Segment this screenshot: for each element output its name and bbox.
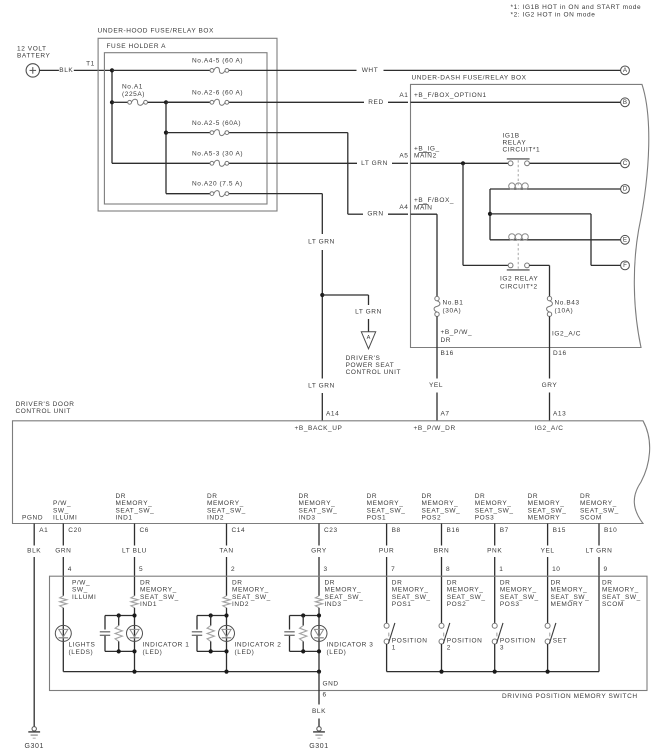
- junction Indicator 3 top rail at wire: [317, 613, 321, 617]
- svg-text:POSITION: POSITION: [500, 637, 536, 644]
- wire pin C20 (GRN): [62, 524, 64, 596]
- junction gnd bus IND1: [132, 670, 136, 674]
- svg-text:DR: DR: [528, 493, 539, 500]
- svg-text:GRY: GRY: [542, 382, 558, 389]
- label PNK wire colour: [487, 548, 502, 555]
- pin C6 label: [140, 527, 149, 534]
- driving position memory switch box: [50, 576, 648, 690]
- svg-text:8: 8: [446, 566, 450, 573]
- svg-text:LT GRN: LT GRN: [308, 383, 335, 390]
- label POSITION 1: [392, 637, 428, 651]
- svg-text:MEMORY_: MEMORY_: [475, 500, 512, 507]
- junction Indicator 2 bottom rail at resistor: [209, 649, 213, 653]
- svg-text:DR: DR: [367, 493, 378, 500]
- svg-text:POS1: POS1: [392, 601, 412, 608]
- svg-text:MEMORY_: MEMORY_: [367, 500, 404, 507]
- svg-text:CONTROL UNIT: CONTROL UNIT: [16, 408, 71, 415]
- svg-text:PNK: PNK: [487, 548, 502, 555]
- label LT GRN wire colour: [586, 548, 613, 555]
- capacitor Indicator 3: [284, 616, 294, 652]
- svg-text:MEMORY_: MEMORY_: [140, 587, 177, 594]
- svg-text:C14: C14: [232, 527, 246, 534]
- label BRN wire colour: [434, 548, 449, 555]
- svg-text:DR: DR: [232, 580, 243, 587]
- pin C14 label: [232, 527, 246, 534]
- resistor R1 illumination: [60, 596, 67, 608]
- svg-text:CIRCUIT*1: CIRCUIT*1: [503, 147, 541, 154]
- pin A13 label: [553, 411, 566, 418]
- svg-text:(225A): (225A): [122, 91, 145, 98]
- label +B_F/BOX_OPTION1: [414, 92, 487, 99]
- label IG2_A/C pin A13: [535, 425, 564, 432]
- svg-text:+B_F/BOX_: +B_F/BOX_: [414, 197, 454, 204]
- wire POS2 to common bus: [441, 644, 443, 672]
- label DRIVER'S DOOR CONTROL UNIT: [16, 401, 75, 415]
- svg-text:DR: DR: [441, 337, 452, 344]
- pin 7 memory switch label: [391, 566, 395, 573]
- svg-text:POWER SEAT: POWER SEAT: [346, 362, 395, 369]
- wire POS3 to common bus: [494, 644, 496, 672]
- svg-text:No.B1: No.B1: [443, 300, 464, 307]
- pin 10 memory switch label: [552, 566, 560, 573]
- wire Indicator 3 parallel bottom rail: [290, 650, 320, 652]
- svg-text:DR: DR: [580, 493, 591, 500]
- fuse No.A1 (225A): [128, 99, 148, 105]
- switch SW1 POSITION 1: [384, 623, 395, 644]
- svg-text:PGND: PGND: [22, 515, 43, 522]
- wire Indicator 1 parallel bottom rail: [105, 650, 135, 652]
- svg-text:UNDER-HOOD FUSE/RELAY BOX: UNDER-HOOD FUSE/RELAY BOX: [98, 28, 215, 35]
- wire coil common to F: [490, 214, 621, 266]
- svg-text:P/W_: P/W_: [72, 580, 90, 587]
- under-hood fuse/relay box: [98, 38, 277, 211]
- label DR_MEMORY_SEAT_SW_SCOM stack: [580, 493, 619, 522]
- pin B16 label: [447, 527, 460, 534]
- wire bus from T1 down (node after battery): [112, 70, 210, 163]
- svg-text:ILLUMI: ILLUMI: [72, 594, 96, 601]
- pin B16 label: [441, 350, 454, 357]
- pin 1 memory switch label: [499, 566, 503, 573]
- svg-text:SEAT_SW_: SEAT_SW_: [528, 507, 567, 514]
- label DR_MEMORY_SEAT_SW_IND1 switch stack: [140, 580, 179, 609]
- label DR_MEMORY_SEAT_SW_POS2 switch stack: [447, 580, 486, 609]
- label P/W_SW_ILLUMI stack: [53, 500, 77, 521]
- wire pin A1 (BLK): [33, 524, 35, 727]
- svg-text:IG2_A/C: IG2_A/C: [535, 425, 564, 432]
- label POSITION 2: [447, 637, 483, 651]
- svg-text:YEL: YEL: [541, 548, 555, 555]
- wire Indicator 2 parallel top rail: [197, 615, 227, 617]
- svg-text:DRIVER'S DOOR: DRIVER'S DOOR: [16, 401, 75, 408]
- label No.A2-5: [192, 120, 241, 127]
- junction Indicator 1 bottom rail at resistor: [117, 649, 121, 653]
- svg-text:SW_: SW_: [72, 587, 88, 594]
- resistor series Indicator 1: [131, 596, 138, 608]
- svg-text:MEMORY_: MEMORY_: [500, 587, 537, 594]
- svg-text:12 VOLT: 12 VOLT: [17, 45, 47, 52]
- svg-text:GRN: GRN: [55, 548, 71, 555]
- label DR_MEMORY_SEAT_SW_POS2 stack: [422, 493, 461, 522]
- svg-text:MAIN: MAIN: [414, 205, 433, 212]
- LED D1 LIGHTS (LEDS): [55, 625, 71, 641]
- svg-text:BATTERY: BATTERY: [17, 53, 51, 60]
- svg-text:GRY: GRY: [311, 548, 327, 555]
- svg-text:BLK: BLK: [59, 67, 73, 74]
- label No.B43 (10A): [555, 300, 580, 315]
- svg-text:SEAT_SW_: SEAT_SW_: [116, 507, 155, 514]
- svg-text:D: D: [623, 186, 628, 193]
- label +B_P/W_DR: [441, 329, 473, 344]
- svg-text:DR: DR: [602, 580, 613, 587]
- resistor parallel Indicator 2: [207, 616, 214, 652]
- wire battery to fuse box (BLK, T1): [40, 69, 113, 71]
- svg-text:7: 7: [391, 566, 395, 573]
- svg-text:D16: D16: [553, 350, 567, 357]
- junction scom bus POS3: [493, 670, 497, 674]
- svg-text:INDICATOR 1: INDICATOR 1: [143, 642, 190, 649]
- svg-text:MEMORY_: MEMORY_: [551, 587, 588, 594]
- label IG1B RELAY CIRCUIT*1: [503, 132, 541, 153]
- pin 8 memory switch label: [446, 566, 450, 573]
- svg-text:DRIVER'S: DRIVER'S: [346, 355, 381, 362]
- svg-text:3: 3: [324, 566, 328, 573]
- wire A4-5 fuse row: [112, 69, 621, 71]
- label WHT: [362, 67, 379, 74]
- terminal D: [621, 185, 630, 194]
- label GRY wire colour: [311, 548, 327, 555]
- pin D16 label: [553, 350, 567, 357]
- note *1: [511, 4, 642, 11]
- terminal C: [621, 159, 630, 168]
- svg-text:DR: DR: [299, 493, 310, 500]
- wire POS1 to common bus: [386, 644, 388, 672]
- wire Indicator 3 branch: [318, 608, 320, 672]
- svg-text:LT GRN: LT GRN: [361, 160, 388, 167]
- svg-text:POSITION: POSITION: [392, 637, 428, 644]
- svg-text:+B_P/W_DR: +B_P/W_DR: [413, 425, 455, 432]
- wire Indicator 3 parallel top rail: [290, 615, 320, 617]
- svg-text:LT BLU: LT BLU: [122, 548, 147, 555]
- pin A7 label: [441, 411, 450, 418]
- wire Indicator 1 branch: [134, 608, 136, 672]
- svg-text:DR: DR: [325, 580, 336, 587]
- svg-text:IND1: IND1: [116, 515, 133, 522]
- svg-text:*1: IG1B HOT in ON and START m: *1: IG1B HOT in ON and START mode: [511, 4, 642, 11]
- resistor parallel Indicator 3: [300, 616, 307, 652]
- pin 4 memory switch label: [68, 566, 72, 573]
- label +B_P/W_DR pin A7: [413, 425, 455, 432]
- fuse No.B43 (10A): [547, 296, 553, 316]
- wire A1 fuse row: [112, 101, 210, 103]
- label IG2_A/C upper: [552, 331, 581, 338]
- switch SW4 SET: [545, 623, 556, 644]
- pin 2 memory switch label: [231, 566, 235, 573]
- wire pin C23 (GRY): [318, 524, 320, 596]
- svg-text:BLK: BLK: [312, 708, 326, 715]
- label DRIVING POSITION MEMORY SWITCH: [502, 693, 638, 700]
- wire A5-3 fuse row: [229, 162, 408, 164]
- svg-text:TAN: TAN: [219, 548, 233, 555]
- junction Indicator 3 top rail at resistor: [301, 613, 305, 617]
- svg-text:A5: A5: [399, 152, 408, 159]
- wire pin B7 (PNK): [494, 524, 496, 624]
- svg-text:POS2: POS2: [447, 601, 467, 608]
- label DR_MEMORY_SEAT_SW_SCOM switch stack: [602, 580, 641, 609]
- junction LT GRN branch: [320, 293, 324, 297]
- svg-text:A1: A1: [39, 527, 48, 534]
- svg-text:MEMORY_: MEMORY_: [392, 587, 429, 594]
- label UNDER-HOOD FUSE/RELAY BOX: [98, 28, 215, 35]
- svg-text:LT GRN: LT GRN: [355, 308, 382, 315]
- label FUSE HOLDER A: [107, 43, 167, 50]
- svg-text:DR: DR: [475, 493, 486, 500]
- svg-text:No.A2-5 (60A): No.A2-5 (60A): [192, 120, 241, 127]
- svg-text:DR: DR: [116, 493, 127, 500]
- wire A2-5 fuse row: [166, 133, 408, 215]
- LED Indicator 3: [311, 625, 327, 641]
- svg-text:A1: A1: [399, 92, 408, 99]
- note *2: [511, 12, 596, 19]
- wire A2-6 fuse row: [166, 101, 408, 103]
- pin B7 label: [500, 527, 509, 534]
- svg-text:A7: A7: [441, 411, 450, 418]
- svg-text:4: 4: [68, 566, 72, 573]
- svg-text:A14: A14: [326, 411, 339, 418]
- wire YEL B16 to A7: [436, 348, 438, 421]
- svg-text:MEMORY: MEMORY: [551, 601, 584, 608]
- svg-text:G301: G301: [309, 743, 328, 750]
- svg-text:+B_BACK_UP: +B_BACK_UP: [295, 425, 343, 432]
- label RED: [368, 99, 383, 106]
- pin A4 under-dash label: [399, 204, 408, 211]
- junction bus at A1 row: [110, 100, 114, 104]
- label No.A5-3: [192, 150, 243, 157]
- junction Indicator 1 bottom rail at wire: [132, 649, 136, 653]
- LED Indicator 1: [127, 625, 143, 641]
- junction scom bus SET: [546, 670, 550, 674]
- label GRN wire colour: [55, 548, 71, 555]
- svg-text:P/W_: P/W_: [53, 500, 71, 507]
- svg-text:SEAT_SW_: SEAT_SW_: [602, 594, 641, 601]
- pin 9 memory switch label: [604, 566, 608, 573]
- pin C23 label: [324, 527, 338, 534]
- resistor series Indicator 3: [315, 596, 322, 608]
- label GND: [323, 681, 339, 688]
- svg-text:2: 2: [231, 566, 235, 573]
- svg-text:WHT: WHT: [362, 67, 379, 74]
- svg-text:IG2_A/C: IG2_A/C: [552, 331, 581, 338]
- junction feed2 at A2-5 row: [164, 131, 168, 135]
- relay K1 IG1B contacts: [507, 159, 530, 185]
- LED Indicator 2: [219, 625, 235, 641]
- label LIGHTS (LEDS): [69, 642, 96, 656]
- svg-text:CONTROL UNIT: CONTROL UNIT: [346, 369, 401, 376]
- relay K1 IG1B coil: [509, 183, 529, 189]
- label BLK battery wire: [59, 67, 74, 74]
- wire Indicator 2 parallel bottom rail: [197, 650, 227, 652]
- svg-text:2: 2: [447, 645, 451, 652]
- svg-text:5: 5: [139, 566, 143, 573]
- svg-text:SEAT_SW_: SEAT_SW_: [207, 507, 246, 514]
- junction after fuse A1: [164, 100, 168, 104]
- svg-text:SEAT_SW_: SEAT_SW_: [475, 507, 514, 514]
- svg-text:SEAT_SW_: SEAT_SW_: [140, 594, 179, 601]
- svg-text:YEL: YEL: [429, 382, 443, 389]
- svg-text:MAIN2: MAIN2: [414, 153, 437, 160]
- wire IG1B coil row: [490, 188, 621, 190]
- wire pin B15 (YEL): [547, 524, 549, 624]
- fuse No.B1 (30A): [434, 296, 440, 316]
- wire pin 6 GND to G301: [318, 672, 320, 727]
- label DR_MEMORY_SEAT_SW_POS1 stack: [367, 493, 406, 522]
- svg-text:9: 9: [604, 566, 608, 573]
- svg-text:SEAT_SW_: SEAT_SW_: [551, 594, 590, 601]
- label POSITION 3: [500, 637, 536, 651]
- fuse No.A2-6 (60 A): [210, 99, 229, 105]
- svg-text:MEMORY_: MEMORY_: [528, 500, 565, 507]
- fuse No.A20 (7.5 A): [210, 191, 229, 197]
- label DR_MEMORY_SEAT_SW_MEMORY stack: [528, 493, 567, 522]
- svg-text:+B_F/BOX_OPTION1: +B_F/BOX_OPTION1: [414, 92, 487, 99]
- svg-text:MEMORY_: MEMORY_: [325, 587, 362, 594]
- svg-text:BLK: BLK: [27, 548, 41, 555]
- junction Indicator 2 top rail at resistor: [209, 613, 213, 617]
- fuse holder A box: [104, 53, 267, 204]
- svg-text:POS3: POS3: [500, 601, 520, 608]
- junction Indicator 2 top rail at wire: [224, 613, 228, 617]
- svg-text:LIGHTS: LIGHTS: [69, 642, 96, 649]
- svg-text:+B_P/W_: +B_P/W_: [441, 329, 473, 336]
- label SET: [553, 637, 567, 644]
- relay K2 IG2 contacts: [507, 244, 530, 270]
- label DRIVER'S POWER SEAT CONTROL UNIT: [346, 355, 401, 376]
- svg-text:POSITION: POSITION: [447, 637, 483, 644]
- wire pin B8 (PUR): [386, 524, 388, 624]
- svg-text:No.A4-5 (60 A): No.A4-5 (60 A): [192, 57, 243, 64]
- wire +B_F/BOX_OPTION1 row: [411, 101, 621, 103]
- svg-text:B: B: [623, 99, 627, 106]
- svg-text:F: F: [623, 262, 627, 269]
- svg-text:3: 3: [500, 645, 504, 652]
- wire Indicator 2 branch: [226, 608, 228, 672]
- pin C20 label: [68, 527, 82, 534]
- driver's door control unit box: [13, 421, 650, 524]
- wire LED ground bus: [63, 671, 319, 673]
- label G301 (door unit): [24, 743, 43, 750]
- resistor series Indicator 2: [223, 596, 230, 608]
- svg-text:No.A1: No.A1: [122, 84, 143, 91]
- label DR_MEMORY_SEAT_SW_IND3 stack: [299, 493, 338, 522]
- capacitor Indicator 2: [192, 616, 202, 652]
- svg-text:(LED): (LED): [327, 649, 347, 656]
- label DR_MEMORY_SEAT_SW_POS3 stack: [475, 493, 514, 522]
- svg-text:B15: B15: [553, 527, 566, 534]
- svg-text:1: 1: [392, 645, 396, 652]
- svg-text:IND2: IND2: [232, 601, 249, 608]
- svg-text:6: 6: [323, 691, 327, 698]
- svg-text:MEMORY_: MEMORY_: [422, 500, 459, 507]
- pin A14 label: [326, 411, 339, 418]
- wire LT GRN vertical to A14: [321, 194, 323, 421]
- svg-text:INDICATOR 3: INDICATOR 3: [327, 642, 374, 649]
- connector A to driver's power seat control unit: [361, 332, 375, 349]
- svg-text:No.B43: No.B43: [555, 300, 580, 307]
- label Indicator 3: [327, 642, 374, 656]
- battery B1 12 VOLT BATTERY: [17, 45, 51, 77]
- label G301 (switch): [309, 743, 328, 750]
- svg-text:SCOM: SCOM: [602, 601, 624, 608]
- svg-text:*2: IG2 HOT in ON mode: *2: IG2 HOT in ON mode: [511, 12, 596, 19]
- svg-text:RED: RED: [368, 99, 383, 106]
- svg-text:C6: C6: [140, 527, 149, 534]
- label No.A2-6: [192, 89, 243, 96]
- svg-text:A4: A4: [399, 204, 408, 211]
- svg-text:DR: DR: [551, 580, 562, 587]
- svg-text:DR: DR: [500, 580, 511, 587]
- ground G301 (door unit PGND): [28, 727, 40, 739]
- svg-text:DRIVING POSITION MEMORY SWITCH: DRIVING POSITION MEMORY SWITCH: [502, 693, 638, 700]
- svg-text:UNDER-DASH FUSE/RELAY BOX: UNDER-DASH FUSE/RELAY BOX: [412, 75, 527, 82]
- wire pin C14 (TAN): [226, 524, 228, 596]
- svg-text:B16: B16: [441, 350, 454, 357]
- svg-text:DR: DR: [392, 580, 403, 587]
- label LT GRN lower: [308, 382, 335, 389]
- svg-text:BRN: BRN: [434, 548, 449, 555]
- label YEL: [429, 382, 444, 389]
- terminal F: [621, 261, 630, 270]
- svg-text:POS2: POS2: [422, 515, 442, 522]
- svg-text:IND3: IND3: [325, 601, 342, 608]
- svg-text:SEAT_SW_: SEAT_SW_: [447, 594, 486, 601]
- svg-text:SW_: SW_: [53, 507, 69, 514]
- pin 6 label: [323, 691, 327, 698]
- wire switch common bus SCOM: [387, 576, 599, 671]
- label YEL wire colour: [540, 548, 555, 555]
- svg-text:C23: C23: [324, 527, 338, 534]
- resistor parallel Indicator 1: [115, 616, 122, 652]
- wire branch to power seat unit: [322, 295, 368, 332]
- terminal T1 label: [86, 60, 95, 67]
- wire +B_F/BOX_MAIN row: [411, 214, 438, 296]
- svg-text:DR: DR: [422, 493, 433, 500]
- svg-text:IND2: IND2: [207, 515, 224, 522]
- label No.B1 (30A): [443, 300, 464, 315]
- wire pin B10 (LT GRN): [598, 524, 600, 577]
- label IG2 RELAY CIRCUIT*2: [500, 275, 538, 290]
- svg-text:IND1: IND1: [140, 601, 157, 608]
- wire feed2 vertical: [166, 102, 210, 193]
- junction Indicator 3 bottom rail at wire: [317, 649, 321, 653]
- svg-text:SEAT_SW_: SEAT_SW_: [325, 594, 364, 601]
- wire B1 fuse to B16: [436, 316, 438, 347]
- terminal B: [621, 98, 630, 107]
- svg-text:MEMORY_: MEMORY_: [232, 587, 269, 594]
- fuse No.A5-3 (30 A): [210, 160, 229, 166]
- svg-text:MEMORY_: MEMORY_: [447, 587, 484, 594]
- pin 5 memory switch label: [139, 566, 143, 573]
- svg-text:LT GRN: LT GRN: [308, 239, 335, 246]
- svg-text:MEMORY_: MEMORY_: [116, 500, 153, 507]
- label LT GRN branch: [355, 308, 382, 315]
- pin B10 label: [604, 527, 617, 534]
- junction bus at A4-5 row: [110, 68, 114, 72]
- label DR_MEMORY_SEAT_SW_POS1 switch stack: [392, 580, 431, 609]
- svg-text:MEMORY_: MEMORY_: [207, 500, 244, 507]
- label +B_BACK_UP: [295, 425, 343, 432]
- svg-text:(LED): (LED): [235, 649, 255, 656]
- label LT GRN upper: [308, 239, 335, 246]
- svg-text:1: 1: [499, 566, 503, 573]
